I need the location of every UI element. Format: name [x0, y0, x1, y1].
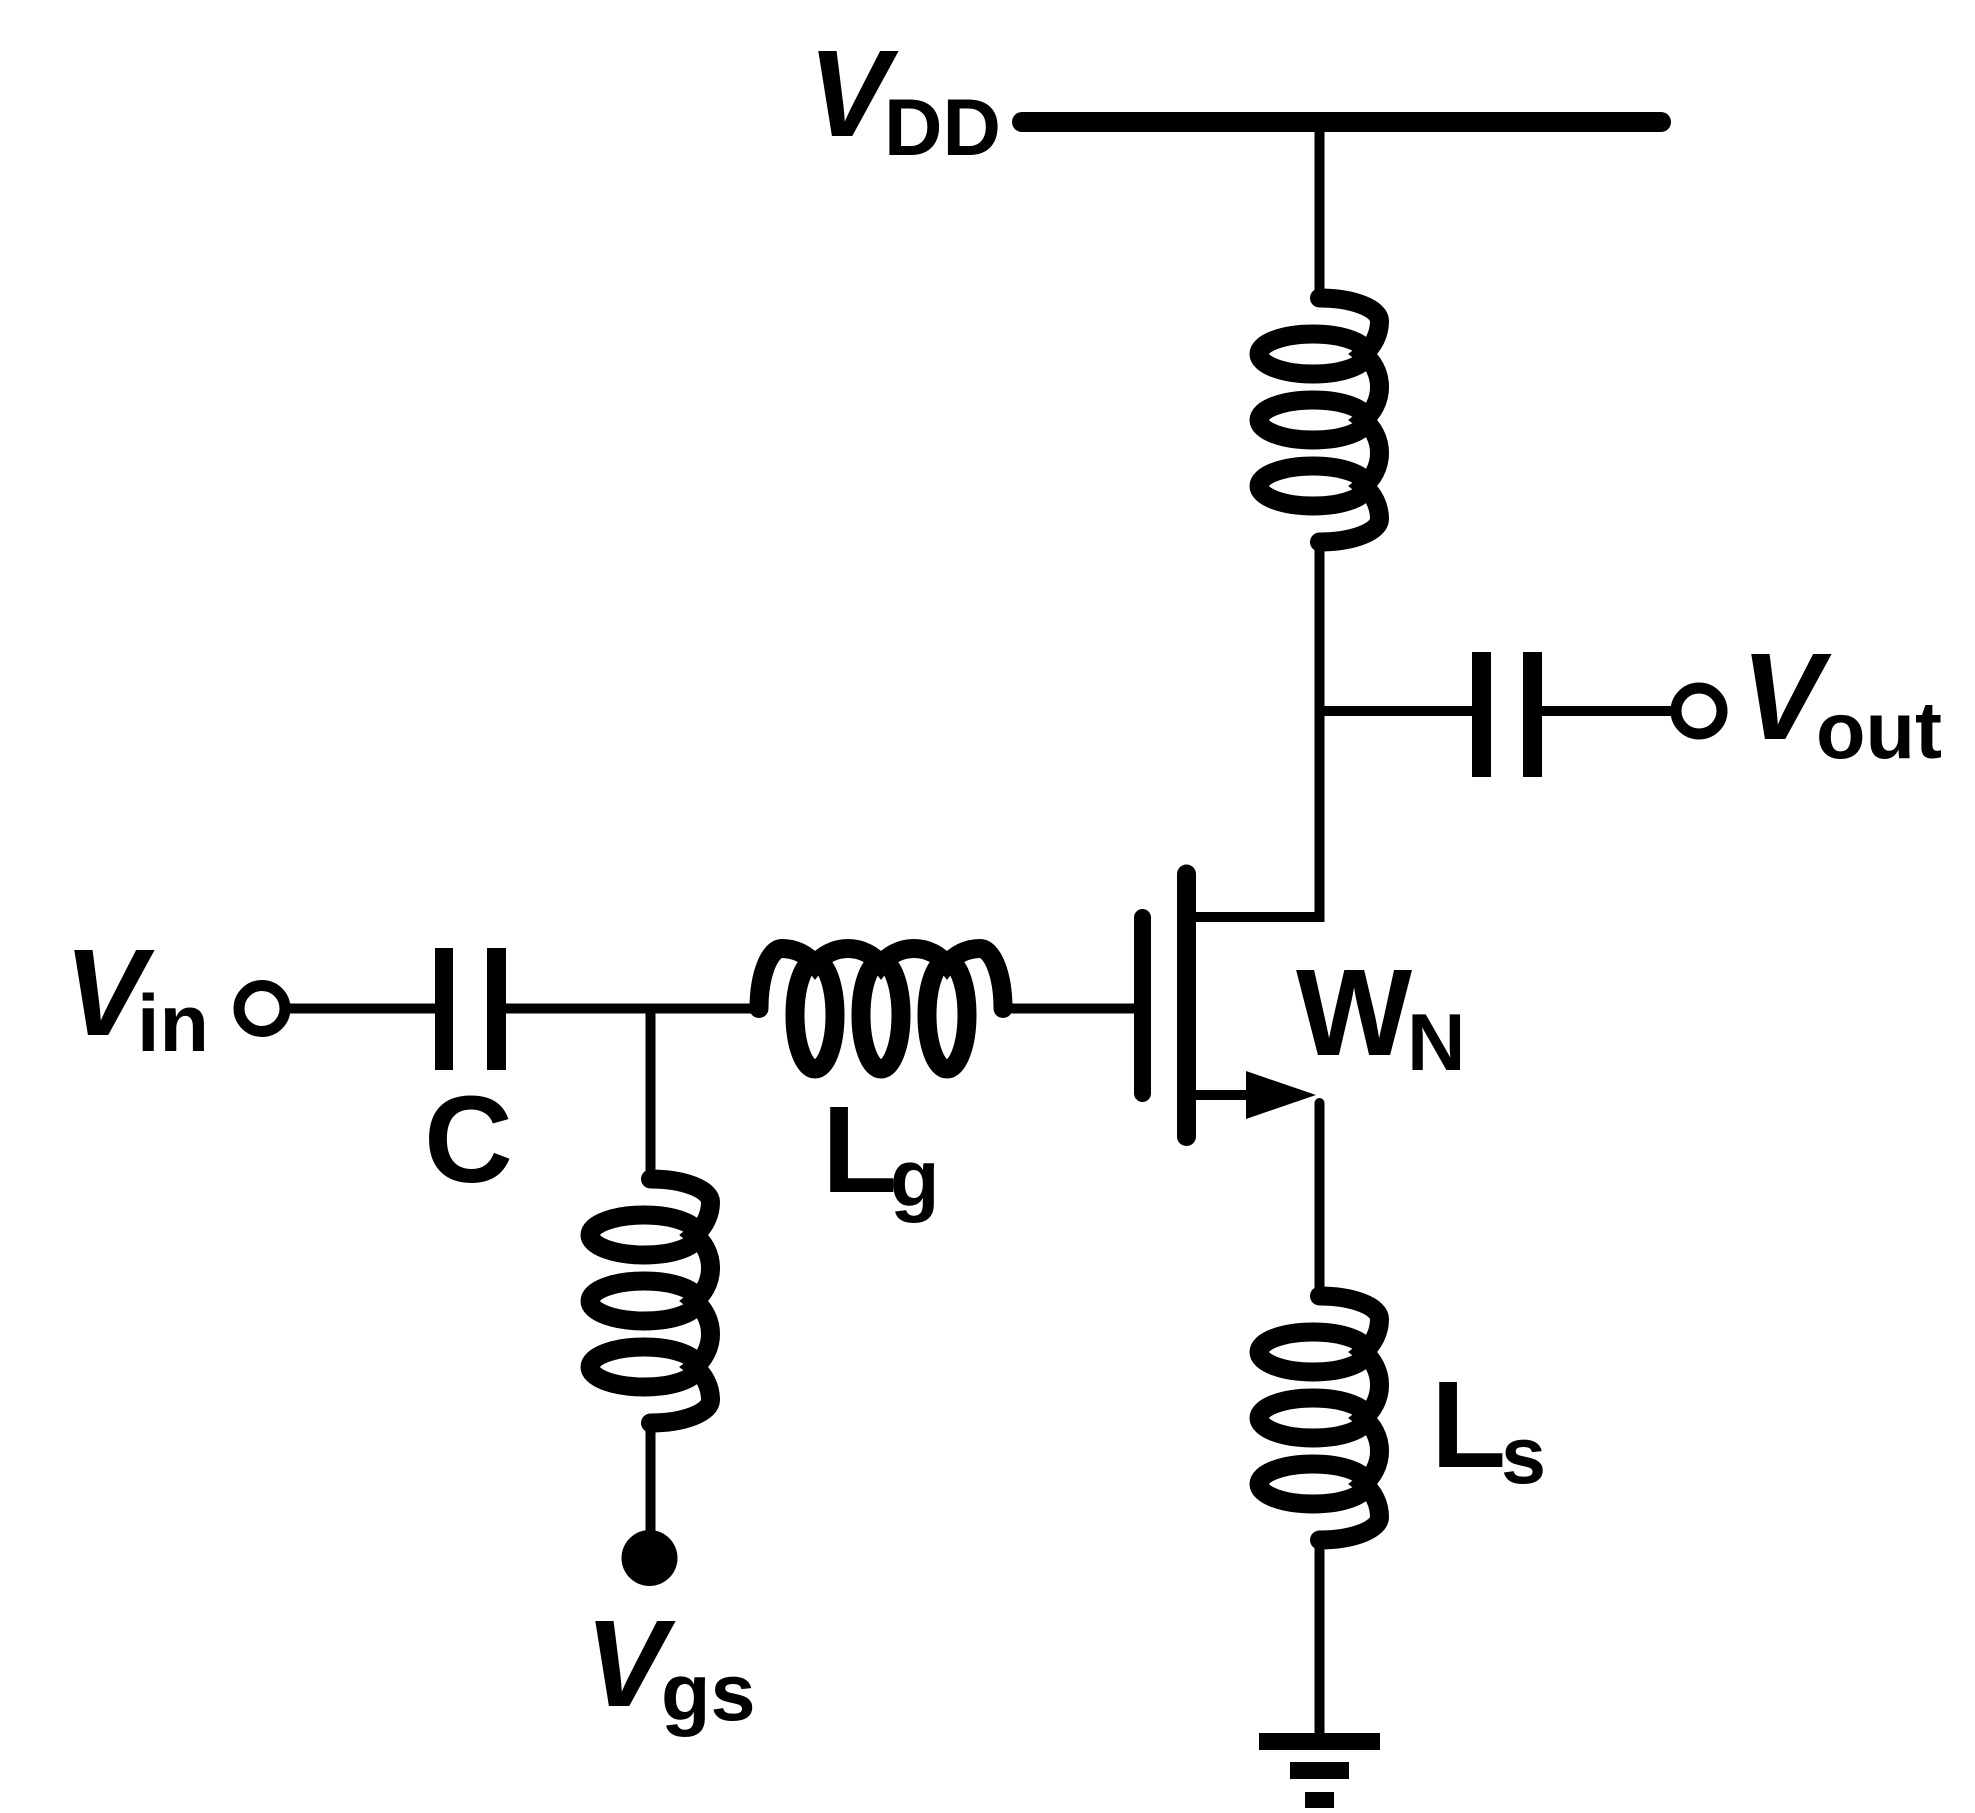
- svg-text:out: out: [1816, 686, 1942, 776]
- wire inductor Ls to ground: [1315, 1538, 1325, 1734]
- transistor WN source arrow: [1246, 1071, 1316, 1119]
- transistor WN source lead: [1196, 1090, 1250, 1100]
- svg-text:DD: DD: [884, 83, 1001, 173]
- inductor Ld (drain load): [1259, 298, 1380, 542]
- svg-text:C: C: [424, 1072, 513, 1209]
- terminal Vin (open circle): [239, 986, 285, 1032]
- wire output node to output capacitor: [1320, 706, 1475, 716]
- capacitor Cout right plate: [1523, 652, 1542, 777]
- wire capacitor C to node A and inductor Lg: [506, 1004, 762, 1014]
- svg-text:L: L: [1431, 1357, 1506, 1494]
- capacitor Cout left plate: [1472, 652, 1491, 777]
- power rail VDD: [1022, 112, 1661, 132]
- wire drain inductor to drain (through output node): [1196, 536, 1320, 917]
- svg-text:g: g: [890, 1134, 939, 1224]
- ground bar 1: [1259, 1733, 1380, 1750]
- transistor WN gate bar: [1134, 918, 1151, 1094]
- ground bar 3: [1305, 1792, 1334, 1808]
- wire source to inductor Ls: [1315, 1103, 1325, 1296]
- wire capacitor to Vout terminal: [1542, 706, 1671, 716]
- svg-text:N: N: [1407, 998, 1466, 1088]
- wire VDD rail to drain inductor: [1315, 122, 1325, 302]
- transistor WN channel bar: [1177, 874, 1196, 1137]
- capacitor C left plate: [435, 948, 453, 1070]
- svg-text:L: L: [822, 1082, 897, 1219]
- svg-text:W: W: [1296, 945, 1412, 1082]
- wire inductor Lg to gate: [1002, 1004, 1135, 1014]
- svg-text:gs: gs: [661, 1648, 756, 1738]
- inductor Lg (gate): [759, 948, 1003, 1069]
- ground bar 2: [1290, 1762, 1349, 1779]
- svg-text:in: in: [137, 979, 209, 1069]
- wire node A down to bias inductor: [646, 1009, 656, 1180]
- wire Vin terminal to capacitor C: [290, 1004, 437, 1014]
- inductor Lbias (Vgs feed): [590, 1179, 711, 1423]
- wire bias inductor to Vgs node: [646, 1421, 656, 1535]
- svg-text:s: s: [1501, 1411, 1546, 1501]
- node Vgs (filled dot): [622, 1530, 678, 1586]
- inductor Ls (source degeneration): [1259, 1296, 1380, 1540]
- capacitor C right plate: [487, 948, 506, 1070]
- terminal Vout (open circle): [1676, 688, 1722, 734]
